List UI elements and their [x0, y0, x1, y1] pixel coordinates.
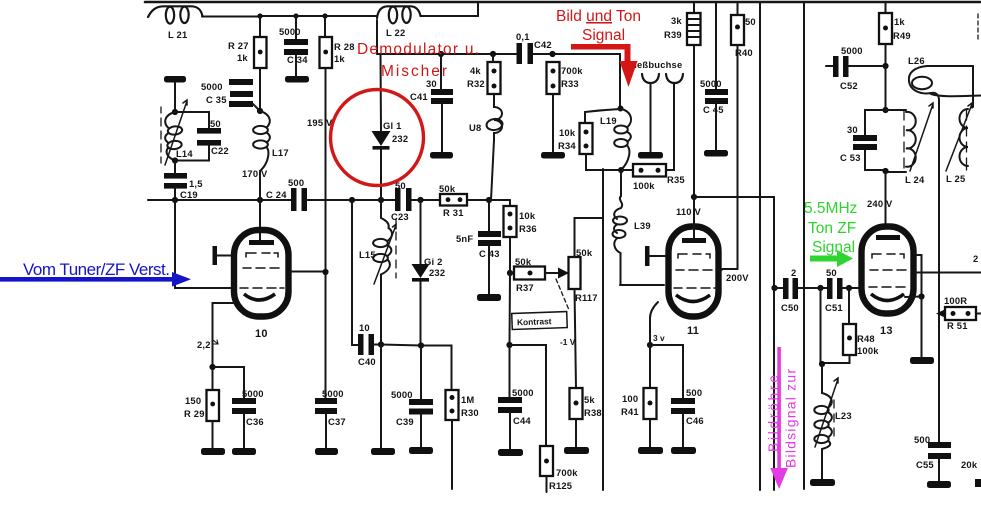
inductor L39 — [613, 196, 651, 285]
resistor R27 1k — [228, 37, 267, 68]
svg-text:11: 11 — [687, 325, 699, 337]
anode plate tube11 — [682, 238, 706, 243]
wire C45 to gnd — [715, 103, 717, 150]
node tank top — [882, 107, 888, 113]
wire L26 bottom stub right — [931, 94, 981, 96]
node L19 top — [618, 106, 624, 112]
wire long vertical 761 — [759, 2, 761, 490]
svg-text:C 53: C 53 — [840, 152, 861, 163]
wire y54 corner down to L19 — [553, 54, 620, 108]
wire main bus left part — [148, 199, 291, 201]
wire C41 to gnd — [441, 103, 443, 152]
wire C37 to gnd — [325, 413, 327, 448]
node bus L15/Gl1 — [378, 197, 384, 203]
wire anode lead tube10 — [259, 200, 261, 240]
svg-text:L17: L17 — [272, 147, 289, 158]
svg-text:C 45: C 45 — [703, 104, 724, 115]
node C39 — [418, 342, 424, 348]
dashed boundary top right — [977, 14, 979, 41]
svg-text:L15: L15 — [359, 249, 376, 260]
node R27/L17/C35 — [257, 108, 263, 114]
node y54 C41 — [438, 51, 444, 57]
ground C41 — [430, 152, 453, 159]
grid g3 tube10 — [246, 253, 278, 257]
capacitor C53 — [840, 124, 877, 163]
wire bar to L14 — [174, 82, 176, 112]
grid g2 tube13 — [870, 269, 906, 271]
svg-text:R37: R37 — [516, 282, 534, 293]
wire screen to right node — [290, 271, 326, 273]
node C52 — [882, 63, 888, 69]
capacitor C24 — [266, 177, 307, 211]
svg-text:Bild und Ton: Bild und Ton — [556, 8, 641, 25]
inductor L15 (variable) — [359, 200, 396, 344]
svg-text:C46: C46 — [686, 415, 704, 426]
green arrow — [810, 250, 853, 267]
svg-text:2: 2 — [791, 267, 796, 278]
ground C37 — [315, 448, 338, 455]
diode Gl1 232 — [372, 120, 409, 150]
wire C34 bottom — [295, 54, 297, 76]
ground R29 — [201, 448, 225, 455]
resistor R31 50k — [439, 183, 467, 218]
ground C44 — [498, 449, 523, 456]
wire C41 branch — [440, 54, 442, 89]
wire to R29 — [212, 367, 214, 390]
grid g2 tube10 — [243, 267, 279, 269]
stub component right edge bottom — [975, 479, 981, 487]
wire grid feed from bus — [175, 200, 231, 288]
node bus Gl2 — [417, 197, 423, 203]
svg-text:-1 V: -1 V — [560, 337, 576, 347]
svg-text:Kontrast: Kontrast — [517, 316, 552, 327]
coupling loop U8 — [469, 94, 503, 200]
SECTION: video detector bottom — [352, 200, 479, 489]
svg-text:Meßbuchse: Meßbuchse — [629, 59, 682, 70]
resistor R33 700k — [547, 62, 584, 94]
svg-text:5000: 5000 — [512, 387, 534, 398]
wire L14 bottom to C19 — [174, 161, 176, 174]
wire C34 top lead — [295, 16, 297, 39]
resistor R37 50k — [510, 256, 545, 293]
svg-text:0,1: 0,1 — [516, 31, 530, 42]
node tank bottom — [882, 168, 888, 174]
svg-text:5000: 5000 — [700, 78, 722, 89]
resistor R35 100k — [621, 164, 685, 191]
capacitor C52 — [826, 45, 885, 91]
cathode tube13 — [871, 294, 904, 301]
resistor R28 1k — [320, 37, 355, 68]
node L23 top — [819, 361, 825, 367]
node bus C19 — [172, 197, 178, 203]
svg-text:700k: 700k — [561, 65, 583, 76]
wire C19 to bus — [174, 188, 176, 200]
wire R117 top to detector line — [575, 218, 604, 257]
ground L15 — [371, 448, 395, 455]
wire L26 down to grid line — [938, 100, 940, 213]
svg-text:3 v: 3 v — [653, 333, 665, 343]
svg-text:5.5MHz: 5.5MHz — [804, 200, 857, 217]
tube U10 envelope — [234, 230, 289, 317]
wire grid return 921 — [917, 255, 922, 357]
svg-text:R117: R117 — [575, 292, 598, 303]
blue arrow — [0, 272, 191, 287]
wire C43 to gnd — [488, 245, 490, 294]
capacitor C44 — [498, 387, 534, 426]
svg-text:R30: R30 — [461, 407, 479, 418]
resistor R34 10k — [558, 123, 593, 154]
node C44 — [506, 342, 512, 348]
svg-text:30: 30 — [847, 124, 858, 135]
capacitor C55 — [914, 434, 978, 470]
wire R40 down to 200V — [737, 45, 739, 269]
wire L22 right to top border — [421, 2, 479, 16]
wire L17 bottom to bus — [259, 171, 261, 200]
svg-text:C44: C44 — [513, 415, 531, 426]
node screen 325 — [322, 269, 328, 275]
wire sound line 939 down — [938, 213, 940, 442]
inductor L25 — [946, 103, 972, 184]
ground R38 — [564, 447, 589, 454]
svg-text:3k: 3k — [671, 15, 682, 26]
SECTION: right — [760, 2, 981, 490]
diode Gl2 232 — [412, 256, 446, 282]
capacitor C19 — [164, 173, 203, 200]
svg-text:5000: 5000 — [841, 45, 863, 56]
node cathode 11 — [647, 342, 653, 348]
capacitor C36 — [232, 388, 264, 427]
wire R48 bottom to L23 node — [823, 355, 850, 363]
wire R37 node down to C44 node — [509, 273, 512, 345]
SECTION: tube11 — [613, 196, 750, 454]
svg-text:L39: L39 — [634, 220, 651, 231]
wire R27 top lead — [259, 16, 261, 37]
wire R29 to gnd — [212, 421, 214, 448]
cathode tube11 — [676, 295, 710, 302]
svg-text:50k: 50k — [515, 256, 532, 267]
wire C53 bottom to tank bottom — [865, 149, 886, 170]
wire L15 gnd — [380, 345, 382, 449]
svg-text:Gl 1: Gl 1 — [383, 120, 402, 131]
resistor R32 4k — [467, 54, 501, 94]
svg-text:C50: C50 — [781, 302, 799, 313]
svg-text:Signal: Signal — [812, 239, 855, 256]
capacitor C40 — [358, 322, 381, 367]
svg-text:5000: 5000 — [201, 81, 223, 92]
SECTION: annotations — [0, 8, 857, 489]
svg-text:50k: 50k — [576, 247, 593, 258]
svg-text:R 51: R 51 — [947, 320, 968, 331]
svg-text:L 25: L 25 — [946, 173, 965, 184]
inductor L17 — [253, 111, 289, 171]
resistor R38 5k — [570, 388, 602, 419]
wire C45 top lead — [715, 2, 717, 89]
wire R41 to gnd — [649, 419, 651, 447]
svg-text:R32: R32 — [467, 78, 485, 89]
ground tube13 cathode — [910, 357, 934, 364]
wire bus to R31 — [411, 199, 440, 201]
anode lead tube11 — [693, 197, 695, 238]
cathode tube10 — [244, 294, 275, 300]
wire C50 to C51 — [798, 287, 828, 289]
node C51 left — [817, 285, 823, 291]
svg-text:L14: L14 — [176, 148, 193, 159]
SECTION: sound takeoff — [553, 2, 774, 490]
test jack right — [666, 74, 683, 83]
grid g1 tube10 — [240, 287, 284, 289]
node y54 R32 — [490, 51, 496, 57]
ground R41 — [638, 447, 663, 454]
wire node to C44 — [509, 345, 511, 397]
ground C55 — [927, 481, 951, 488]
svg-text:5000: 5000 — [322, 388, 344, 399]
wire branch to R125 — [510, 345, 547, 446]
magenta arrow — [770, 347, 788, 489]
capacitor C43 5nF — [456, 231, 501, 259]
inductor L22 — [377, 6, 421, 38]
wire C36 to gnd — [243, 413, 245, 448]
resistor R36 10k — [504, 206, 537, 237]
svg-text:5000: 5000 — [391, 389, 413, 400]
SECTION: top bus — [145, 2, 980, 54]
dashed leader Kontrast — [556, 279, 569, 310]
svg-text:1,5: 1,5 — [189, 178, 203, 189]
capacitor C39 — [391, 346, 433, 428]
wire cathode out — [213, 303, 235, 367]
inductor L14 (variable) — [161, 100, 193, 165]
svg-text:50: 50 — [210, 118, 221, 129]
resistor R41 100 — [621, 388, 657, 419]
ground C39 — [409, 447, 433, 454]
wire vertical 603 from L19 junction down — [602, 169, 604, 490]
svg-text:110 V: 110 V — [676, 206, 702, 217]
wire Gl2 line — [420, 200, 422, 345]
wire R36 bottom — [509, 237, 511, 273]
svg-text:C22: C22 — [211, 145, 229, 156]
SECTION: col R27 — [201, 16, 355, 398]
svg-text:1M: 1M — [461, 394, 474, 405]
wire tank top to C53 — [865, 110, 886, 135]
wire C43 branch — [488, 200, 490, 231]
svg-text:4k: 4k — [470, 65, 481, 76]
capacitor C22 — [197, 118, 229, 156]
svg-text:50: 50 — [745, 16, 756, 27]
wire R30 bottom — [451, 420, 453, 489]
grid g2 tube11 — [676, 269, 722, 271]
SECTION: demod — [372, 31, 584, 200]
svg-text:Vom Tuner/ZF Verst.: Vom Tuner/ZF Verst. — [23, 260, 170, 279]
wire 352 vertical down to C40 — [352, 200, 358, 345]
svg-text:R 28: R 28 — [334, 41, 355, 52]
wire top bus y16 — [202, 15, 377, 18]
wire L39 to tube11 grid — [620, 284, 664, 286]
svg-text:R38: R38 — [584, 407, 602, 418]
tube U11 envelope — [669, 227, 719, 317]
node top bus C34 — [293, 13, 298, 18]
node L19 bottom — [618, 167, 624, 173]
wire C22 branch top — [175, 112, 209, 128]
svg-text:C19: C19 — [180, 189, 198, 200]
resistor R51 100R — [944, 295, 981, 331]
wire cathode to node — [905, 296, 922, 299]
svg-text:500: 500 — [914, 434, 930, 445]
resistor R40 50 — [731, 2, 756, 58]
wire L26 top right — [927, 65, 973, 67]
wire left jack to gnd — [650, 83, 652, 152]
svg-text:L 24: L 24 — [905, 174, 925, 185]
wire R49 bottom to node — [885, 44, 887, 66]
svg-text:1k: 1k — [237, 52, 248, 63]
wire R35 right up to jack — [666, 84, 674, 170]
wire long vertical 804 — [803, 2, 805, 489]
svg-text:R36: R36 — [519, 223, 537, 234]
svg-text:Demodulator u.: Demodulator u. — [357, 41, 479, 58]
svg-text:5nF: 5nF — [456, 233, 473, 244]
anode plate tube10 — [249, 240, 274, 245]
svg-text:240 V: 240 V — [867, 198, 893, 209]
resistor R29 150 — [184, 390, 219, 421]
node C43/R36 — [486, 197, 492, 203]
wire R34 top link — [585, 109, 620, 123]
wire C44 to gnd — [509, 412, 511, 449]
svg-text:U8: U8 — [469, 122, 481, 133]
capacitor C46 — [671, 387, 704, 426]
wire L22 left lead down to diode line — [376, 20, 378, 54]
label box Kontrast — [512, 312, 568, 330]
svg-text:100k: 100k — [857, 345, 879, 356]
grid cap bar tube11 — [645, 246, 666, 266]
svg-text:R34: R34 — [558, 140, 576, 151]
svg-text:5k: 5k — [584, 394, 595, 405]
wire to C36 — [213, 367, 245, 398]
grid g3 tube11 — [678, 254, 710, 258]
svg-text:C40: C40 — [358, 356, 376, 367]
svg-text:C39: C39 — [396, 416, 414, 427]
wire C22 bottom to L14 bottom — [175, 145, 209, 161]
grid g1 tube13 — [869, 286, 905, 288]
wire tube13 output right — [915, 272, 981, 274]
ground C46 — [671, 447, 696, 454]
svg-text:5000: 5000 — [279, 26, 301, 37]
svg-text:C51: C51 — [825, 302, 843, 313]
wire bus mid part — [306, 199, 395, 201]
svg-text:R48: R48 — [857, 333, 875, 344]
wire L19 bottom down to L39 — [620, 170, 622, 196]
wire screen 200V — [722, 268, 738, 270]
svg-text:10: 10 — [255, 328, 268, 340]
wire C46 to gnd — [682, 413, 684, 447]
node top bus R27 — [257, 13, 262, 18]
svg-text:Bildsignal zur: Bildsignal zur — [783, 369, 799, 468]
svg-text:R41: R41 — [621, 406, 639, 417]
svg-text:C55: C55 — [916, 459, 934, 470]
ground L23 — [810, 479, 835, 486]
ground C45 — [704, 150, 728, 157]
SECTION: left tank — [161, 76, 229, 200]
svg-text:1k: 1k — [334, 53, 345, 64]
svg-text:C41: C41 — [410, 91, 428, 102]
node L14 bottom — [172, 157, 178, 163]
wire R117 bottom down to R38 — [575, 289, 577, 388]
node C40 right — [378, 341, 384, 347]
resistor R49 1k — [879, 13, 911, 44]
svg-text:200V: 200V — [726, 272, 749, 283]
wire top border — [145, 1, 980, 4]
wire R27 bottom lead — [259, 68, 261, 111]
ground C36 — [232, 448, 256, 455]
capacitor C42 — [516, 31, 552, 64]
svg-text:L19: L19 — [600, 115, 617, 126]
svg-text:R49: R49 — [893, 30, 911, 41]
capacitor C41 — [410, 78, 453, 104]
node 110V — [691, 194, 697, 200]
wire R28 long vertical down to C37 — [325, 68, 327, 398]
SECTION: tube10 — [175, 200, 346, 455]
svg-text:10k: 10k — [519, 210, 536, 221]
wire R38 to gnd — [575, 419, 577, 447]
wire to R41 — [649, 345, 651, 388]
svg-text:Ton ZF: Ton ZF — [808, 220, 856, 237]
wire R39 down to 110V node — [693, 45, 695, 197]
wire diode Gl1 line — [380, 54, 383, 200]
arrow tap R51 — [936, 309, 947, 319]
wire cathode tube11 — [650, 302, 658, 345]
anode plate tube13 — [876, 235, 900, 240]
svg-text:100R: 100R — [944, 295, 967, 306]
svg-text:700k: 700k — [556, 467, 578, 478]
red circle around Gl1 — [331, 90, 424, 186]
tube U13 envelope — [862, 227, 914, 314]
node bus C40 branch — [349, 197, 355, 203]
wire to C46 — [650, 345, 683, 398]
wire video node to C39 and R30 — [381, 345, 452, 391]
node cathode split — [209, 364, 215, 370]
wire C50 lead — [774, 287, 783, 289]
grid cap bar tube10 — [213, 246, 232, 265]
svg-text:L23: L23 — [835, 410, 852, 421]
inductor L26 — [908, 55, 939, 100]
capacitor C37 — [315, 388, 346, 427]
svg-text:232: 232 — [429, 267, 445, 278]
svg-text:10k: 10k — [559, 127, 576, 138]
tick near 2,2 — [213, 340, 218, 344]
ground C43 — [477, 294, 501, 301]
node top bus R28 — [322, 13, 327, 18]
capacitor C23 — [391, 180, 412, 222]
node bus L17/anode — [257, 197, 263, 203]
wire R34 bottom link — [586, 154, 621, 170]
svg-text:L 21: L 21 — [168, 29, 187, 40]
resistor R125 700k — [540, 446, 578, 491]
svg-text:100k: 100k — [633, 180, 655, 191]
SECTION: contrast — [456, 169, 603, 492]
node video line C50 — [771, 285, 777, 291]
svg-text:10: 10 — [359, 322, 370, 333]
wire L26 right corner down — [972, 66, 974, 107]
svg-text:20k: 20k — [961, 459, 978, 470]
node cathode 13 — [918, 293, 924, 299]
svg-text:C 35: C 35 — [206, 94, 227, 105]
inductor L19 — [600, 109, 631, 171]
node R37 — [507, 270, 513, 276]
wire R28 top lead — [324, 16, 326, 37]
inductor L24 — [886, 103, 934, 185]
svg-text:L26: L26 — [908, 55, 925, 66]
wire node down — [885, 66, 887, 110]
ground R33 — [541, 152, 565, 159]
svg-text:R39: R39 — [664, 29, 682, 40]
svg-text:C36: C36 — [246, 416, 264, 427]
